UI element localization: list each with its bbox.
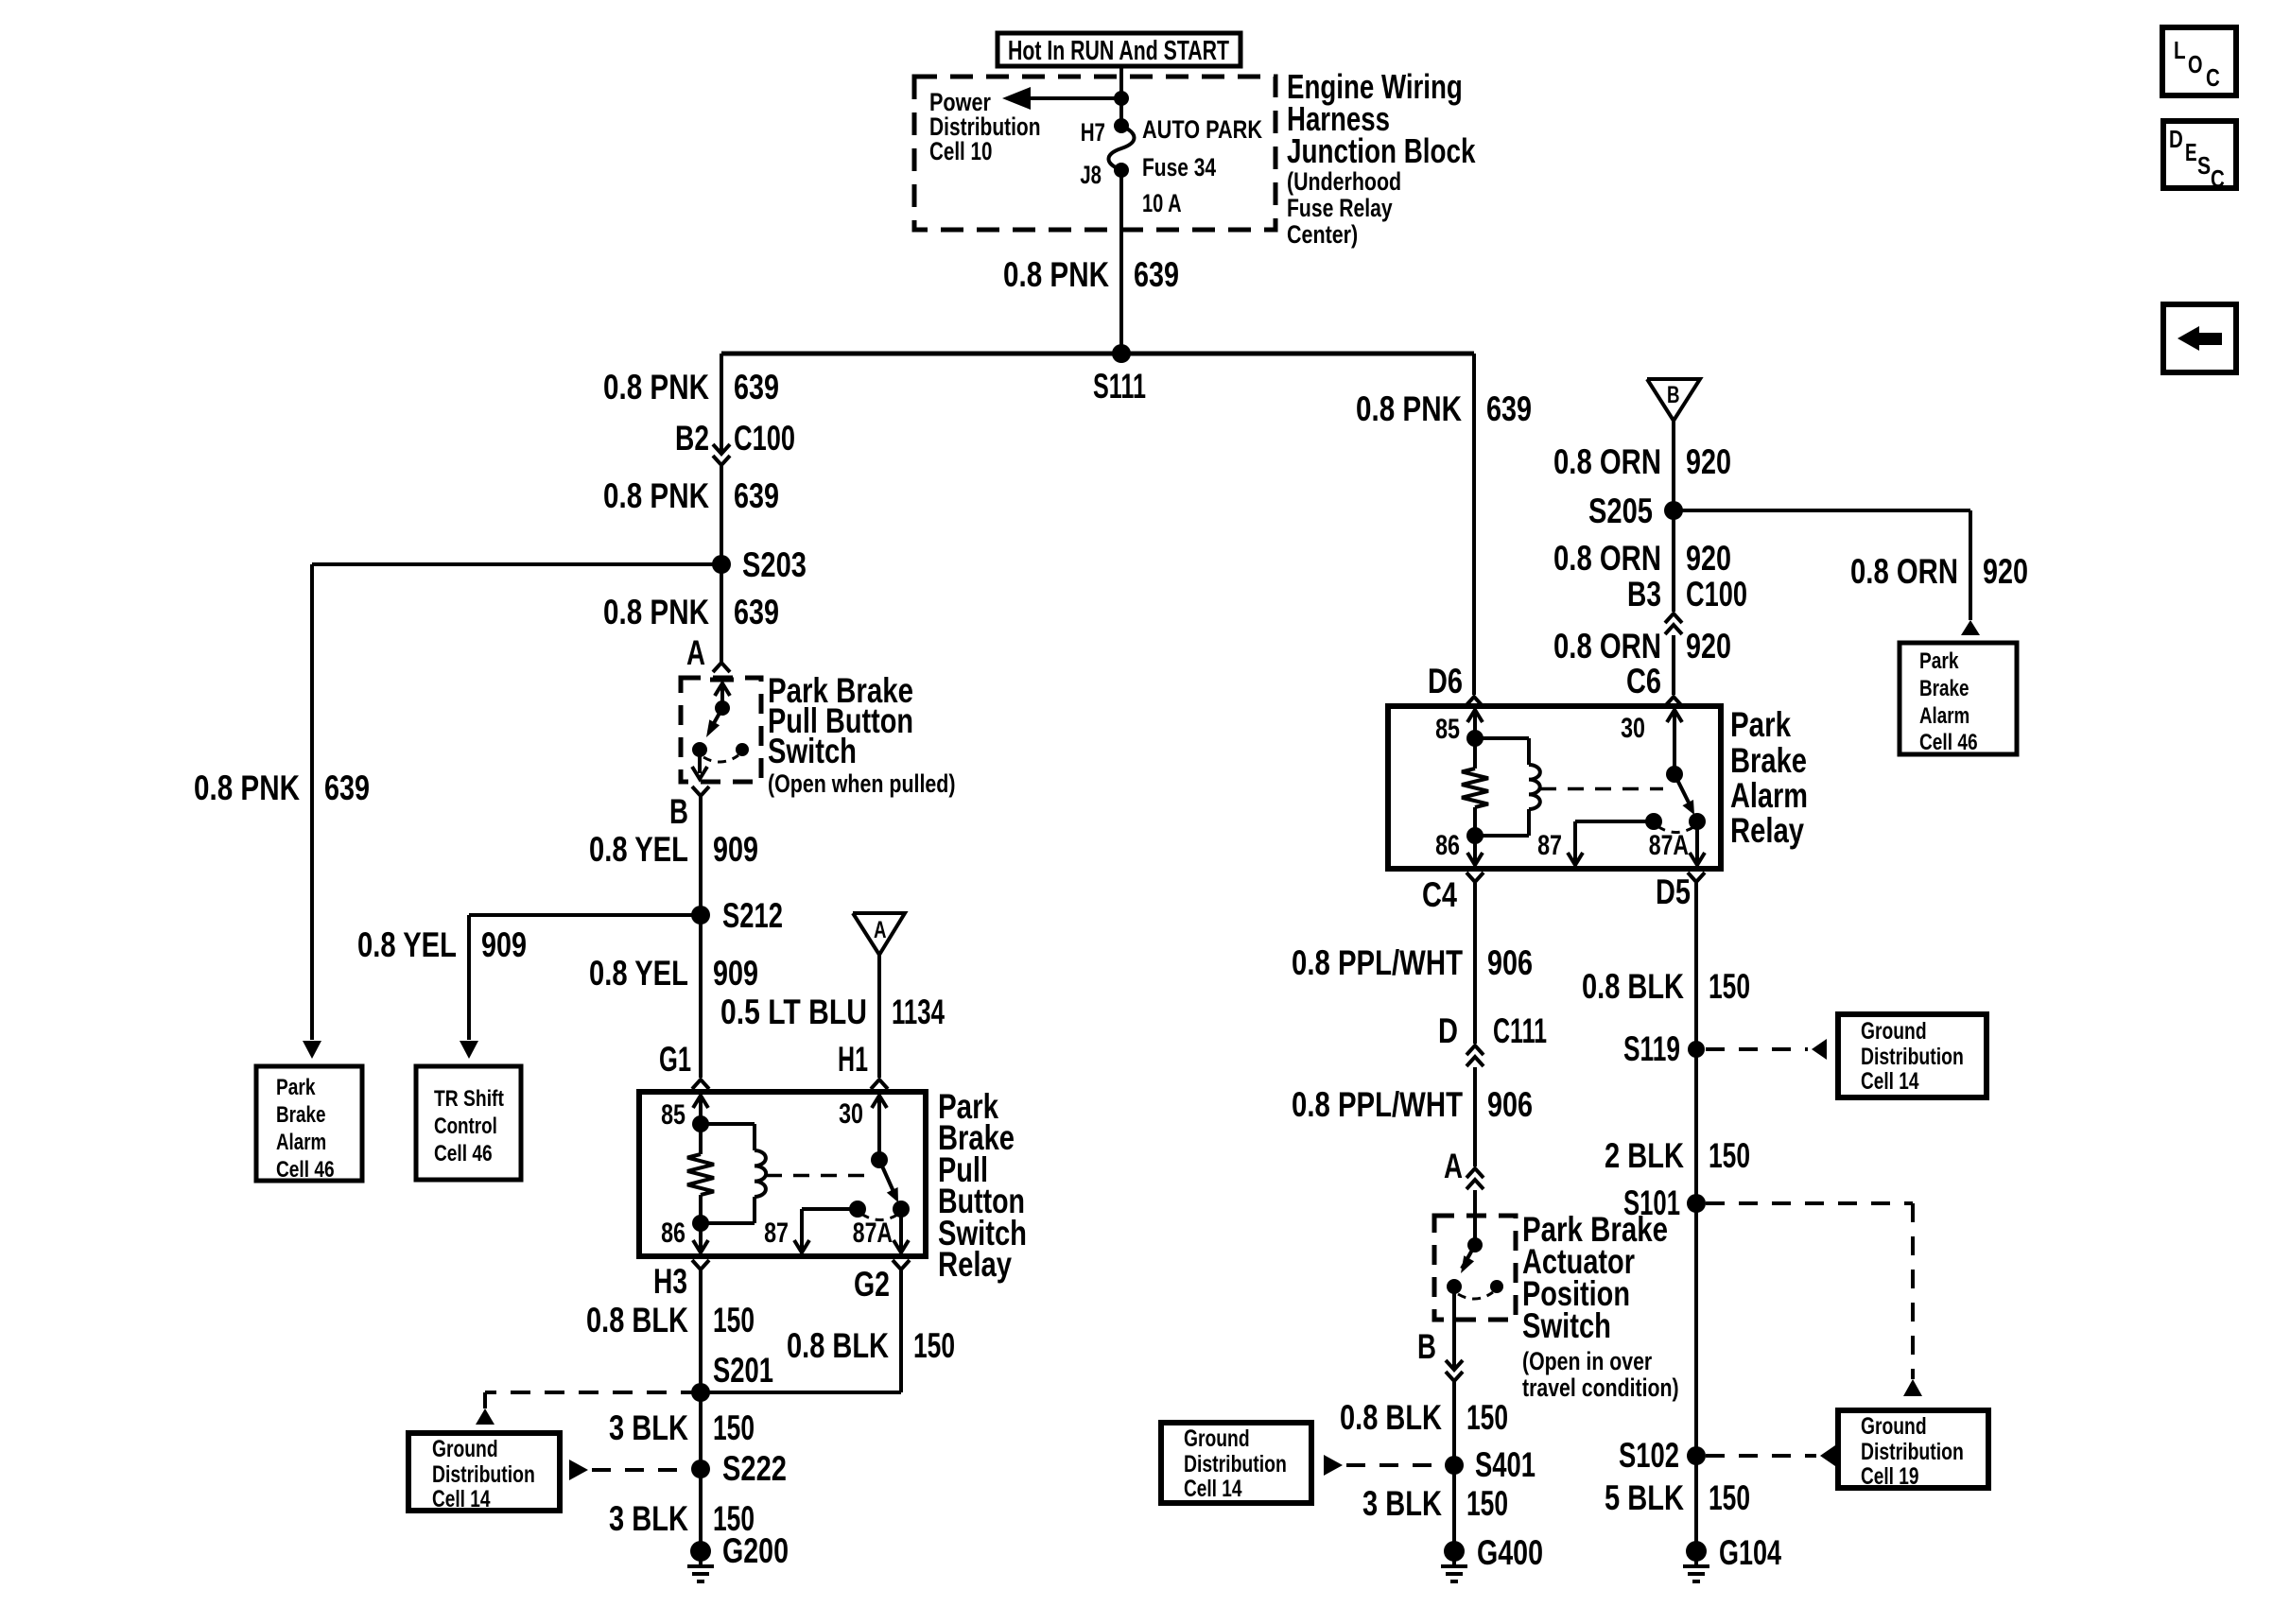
svg-text:Ground: Ground <box>1861 1018 1927 1045</box>
svg-text:639: 639 <box>1134 255 1179 294</box>
svg-text:Relay: Relay <box>938 1245 1012 1284</box>
svg-text:0.8 ORN: 0.8 ORN <box>1553 442 1661 481</box>
svg-text:G400: G400 <box>1477 1533 1543 1572</box>
svg-text:Cell 46: Cell 46 <box>1919 730 1978 755</box>
svg-text:85: 85 <box>661 1099 685 1131</box>
svg-text:906: 906 <box>1487 943 1533 982</box>
svg-text:0.8 PNK: 0.8 PNK <box>603 368 709 406</box>
svg-text:0.8 PPL/WHT: 0.8 PPL/WHT <box>1292 943 1463 982</box>
svg-text:(Open when pulled): (Open when pulled) <box>768 769 956 798</box>
svg-text:O: O <box>2188 50 2203 78</box>
svg-text:87A: 87A <box>853 1218 893 1249</box>
svg-text:S101: S101 <box>1623 1183 1680 1222</box>
svg-text:0.8 BLK: 0.8 BLK <box>787 1326 889 1365</box>
svg-text:A: A <box>874 917 887 943</box>
svg-text:C4: C4 <box>1422 875 1457 914</box>
svg-text:2 BLK: 2 BLK <box>1605 1136 1684 1175</box>
svg-text:Switch: Switch <box>768 732 857 770</box>
svg-text:D: D <box>2169 125 2183 153</box>
svg-text:Alarm: Alarm <box>276 1130 326 1155</box>
svg-text:Brake: Brake <box>1919 676 1969 701</box>
svg-text:0.8 PNK: 0.8 PNK <box>603 593 709 631</box>
svg-text:639: 639 <box>324 769 370 807</box>
svg-text:150: 150 <box>1709 1136 1750 1175</box>
svg-text:0.8 PNK: 0.8 PNK <box>603 476 709 515</box>
svg-text:150: 150 <box>1466 1484 1508 1523</box>
svg-text:Brake: Brake <box>276 1102 326 1128</box>
svg-text:G2: G2 <box>854 1265 890 1304</box>
svg-text:Cell 14: Cell 14 <box>432 1486 491 1512</box>
svg-text:(Underhood: (Underhood <box>1287 167 1401 196</box>
svg-text:5 BLK: 5 BLK <box>1605 1478 1684 1517</box>
svg-text:D6: D6 <box>1428 662 1463 700</box>
svg-text:86: 86 <box>661 1218 685 1249</box>
svg-text:S203: S203 <box>742 545 807 584</box>
svg-text:S111: S111 <box>1093 367 1146 406</box>
svg-text:B: B <box>1417 1327 1436 1366</box>
svg-text:Ground: Ground <box>1184 1425 1250 1452</box>
svg-text:Control: Control <box>434 1114 497 1139</box>
svg-text:H1: H1 <box>838 1040 868 1079</box>
svg-text:Park: Park <box>1730 705 1791 744</box>
svg-text:B2: B2 <box>675 419 709 458</box>
svg-text:0.8 YEL: 0.8 YEL <box>589 830 688 869</box>
svg-text:0.8 YEL: 0.8 YEL <box>357 925 457 964</box>
svg-text:S205: S205 <box>1588 492 1653 530</box>
svg-text:150: 150 <box>913 1326 955 1365</box>
svg-text:B: B <box>1667 382 1680 408</box>
svg-text:Cell 46: Cell 46 <box>276 1157 335 1183</box>
svg-text:S212: S212 <box>722 896 783 935</box>
svg-text:A: A <box>1444 1147 1463 1185</box>
svg-text:B: B <box>669 792 688 831</box>
svg-text:87: 87 <box>764 1218 789 1249</box>
svg-text:Distribution: Distribution <box>432 1461 535 1488</box>
svg-text:920: 920 <box>1686 627 1731 665</box>
svg-text:Park: Park <box>276 1075 316 1100</box>
svg-text:(Open in over: (Open in over <box>1522 1347 1653 1375</box>
svg-text:S201: S201 <box>713 1351 773 1390</box>
svg-text:920: 920 <box>1686 539 1731 578</box>
svg-text:Distribution: Distribution <box>1184 1451 1287 1477</box>
svg-text:150: 150 <box>713 1408 755 1447</box>
svg-text:909: 909 <box>713 954 758 993</box>
svg-text:L: L <box>2174 36 2186 64</box>
svg-text:0.5 LT BLU: 0.5 LT BLU <box>720 993 867 1031</box>
svg-text:920: 920 <box>1686 442 1731 481</box>
svg-text:S102: S102 <box>1619 1436 1679 1475</box>
svg-text:Switch: Switch <box>1522 1306 1611 1345</box>
svg-text:87A: 87A <box>1649 830 1689 861</box>
svg-text:0.8 BLK: 0.8 BLK <box>586 1301 688 1339</box>
svg-text:85: 85 <box>1435 714 1460 745</box>
svg-text:Cell 19: Cell 19 <box>1861 1463 1919 1490</box>
svg-text:920: 920 <box>1983 552 2028 591</box>
svg-text:Cell 14: Cell 14 <box>1861 1068 1919 1095</box>
svg-text:639: 639 <box>734 368 779 406</box>
svg-text:906: 906 <box>1487 1085 1533 1124</box>
svg-text:639: 639 <box>1486 389 1532 428</box>
svg-text:travel condition): travel condition) <box>1522 1373 1679 1402</box>
svg-text:0.8 PNK: 0.8 PNK <box>1003 255 1109 294</box>
svg-text:Ground: Ground <box>432 1436 498 1462</box>
svg-text:150: 150 <box>713 1301 755 1339</box>
svg-text:S222: S222 <box>722 1449 787 1488</box>
svg-text:3 BLK: 3 BLK <box>609 1499 688 1538</box>
svg-text:Center): Center) <box>1287 220 1358 249</box>
svg-text:Cell 14: Cell 14 <box>1184 1476 1242 1502</box>
svg-text:Alarm: Alarm <box>1730 776 1808 815</box>
svg-text:0.8 ORN: 0.8 ORN <box>1553 627 1661 665</box>
svg-text:Junction Block: Junction Block <box>1287 131 1476 170</box>
svg-text:87: 87 <box>1537 830 1562 861</box>
svg-text:H3: H3 <box>653 1262 687 1301</box>
svg-text:G104: G104 <box>1719 1533 1781 1572</box>
svg-text:0.8 BLK: 0.8 BLK <box>1582 967 1684 1006</box>
svg-text:639: 639 <box>734 593 779 631</box>
svg-text:909: 909 <box>481 925 527 964</box>
svg-text:E: E <box>2185 138 2197 166</box>
svg-text:Fuse 34: Fuse 34 <box>1142 153 1216 181</box>
svg-text:C111: C111 <box>1493 1011 1547 1050</box>
svg-text:150: 150 <box>1709 967 1750 1006</box>
svg-text:10 A: 10 A <box>1142 189 1182 217</box>
svg-text:30: 30 <box>839 1098 863 1130</box>
svg-text:0.8 YEL: 0.8 YEL <box>589 954 688 993</box>
svg-text:S401: S401 <box>1475 1445 1536 1484</box>
svg-text:0.8 BLK: 0.8 BLK <box>1340 1398 1442 1437</box>
svg-text:3 BLK: 3 BLK <box>609 1408 688 1447</box>
svg-text:S119: S119 <box>1623 1029 1680 1068</box>
svg-text:0.8 ORN: 0.8 ORN <box>1850 552 1958 591</box>
svg-text:Brake: Brake <box>1730 741 1807 780</box>
svg-text:Ground: Ground <box>1861 1413 1927 1440</box>
svg-text:C: C <box>2211 164 2225 193</box>
svg-text:0.8 PNK: 0.8 PNK <box>194 769 300 807</box>
svg-text:909: 909 <box>713 830 758 869</box>
svg-text:Distribution: Distribution <box>1861 1439 1964 1465</box>
svg-text:Cell 46: Cell 46 <box>434 1141 493 1166</box>
svg-text:Park: Park <box>1919 648 1959 674</box>
svg-text:A: A <box>686 633 705 672</box>
svg-text:C100: C100 <box>1686 575 1747 613</box>
svg-text:150: 150 <box>1466 1398 1508 1437</box>
svg-text:Fuse Relay: Fuse Relay <box>1287 194 1393 222</box>
svg-text:S: S <box>2197 151 2211 180</box>
svg-text:0.8 PNK: 0.8 PNK <box>1356 389 1462 428</box>
svg-text:TR Shift: TR Shift <box>434 1086 504 1112</box>
svg-text:30: 30 <box>1621 713 1645 744</box>
svg-text:0.8 PPL/WHT: 0.8 PPL/WHT <box>1292 1085 1463 1124</box>
svg-text:Cell 10: Cell 10 <box>929 137 992 165</box>
svg-text:AUTO PARK: AUTO PARK <box>1142 115 1262 144</box>
svg-text:Relay: Relay <box>1730 811 1804 850</box>
svg-text:C6: C6 <box>1626 662 1661 700</box>
svg-text:B3: B3 <box>1627 575 1661 613</box>
svg-text:Alarm: Alarm <box>1919 703 1969 729</box>
svg-text:Distribution: Distribution <box>1861 1044 1964 1070</box>
svg-text:3 BLK: 3 BLK <box>1362 1484 1442 1523</box>
svg-text:G200: G200 <box>722 1531 789 1570</box>
svg-text:1134: 1134 <box>892 993 945 1031</box>
svg-text:J8: J8 <box>1080 161 1102 189</box>
svg-text:G1: G1 <box>659 1040 691 1079</box>
svg-text:0.8 ORN: 0.8 ORN <box>1553 539 1661 578</box>
svg-text:H7: H7 <box>1081 118 1105 147</box>
svg-text:639: 639 <box>734 476 779 515</box>
svg-text:D: D <box>1438 1011 1458 1050</box>
svg-text:D5: D5 <box>1656 872 1691 911</box>
svg-text:150: 150 <box>1709 1478 1750 1517</box>
svg-text:C100: C100 <box>734 419 795 458</box>
svg-text:86: 86 <box>1435 830 1460 861</box>
svg-text:Hot In RUN And START: Hot In RUN And START <box>1008 36 1229 66</box>
svg-text:C: C <box>2206 63 2220 92</box>
